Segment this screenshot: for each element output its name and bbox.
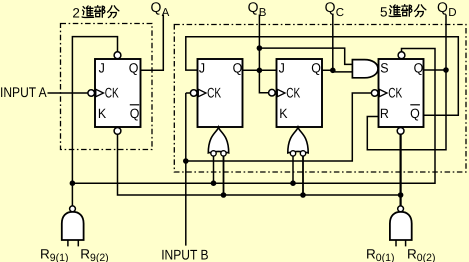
clear gate G2 under FF2 (negative-OR) <box>208 127 228 156</box>
wire INPUT B vertical to FF2 CK <box>186 93 190 246</box>
svg-text:9(2): 9(2) <box>90 252 109 262</box>
label 5進部分 (quinary section) <box>380 4 426 19</box>
R9 NAND input stubs <box>68 240 78 246</box>
wire QB net: label down, to FF3 CK <box>259 15 268 93</box>
svg-text:Q: Q <box>311 61 321 76</box>
wire R0 net: FF1 clear bubble down to R0 rail <box>118 134 401 195</box>
flip-flop FF3 <box>277 59 323 127</box>
svg-text:S: S <box>380 61 388 76</box>
wire Q-bar D feedback to FF2 J <box>186 37 459 116</box>
svg-text:CK: CK <box>105 85 119 101</box>
node R0(1) label <box>366 246 394 262</box>
svg-text:J: J <box>199 61 205 76</box>
svg-text:Q: Q <box>410 106 420 121</box>
junction R0 NAND output <box>398 192 404 198</box>
node R0(2) label <box>407 246 435 262</box>
svg-text:0(1): 0(1) <box>376 252 395 262</box>
junction QB to AND-gate branch <box>257 45 263 51</box>
svg-text:B: B <box>259 7 267 19</box>
svg-text:K: K <box>98 106 106 121</box>
svg-text:R: R <box>407 246 417 261</box>
svg-text:D: D <box>448 7 456 19</box>
wire QC net: FF3 Q out, label up, AND gate lower input <box>323 15 353 72</box>
wire R9 line: horizontal rail to FF4 preset bubble <box>72 49 435 184</box>
wire QD net: FF4 Q out, label up, down to FF4 R input <box>367 15 446 150</box>
junction QD at FF4 Q output <box>443 67 449 73</box>
node R9(2) label <box>80 246 108 262</box>
G2 input wire from R9 rail <box>213 156 215 183</box>
FF4 CK inversion bubble <box>371 90 378 97</box>
clear gate G3 under FF3 (negative-OR) <box>288 127 308 156</box>
node QA label <box>151 0 170 19</box>
NAND gate R9 (bottom left) <box>62 206 84 240</box>
junction R9 rail to G3 <box>290 180 296 186</box>
svg-text:5: 5 <box>380 4 388 19</box>
wire INPUT A to FF1 CK <box>48 92 88 94</box>
FF3 CK inversion bubble <box>269 89 276 96</box>
flip-flop FF1 (binary section) <box>95 59 141 127</box>
junction R9 NAND output <box>70 180 76 186</box>
dashed enclosure box1 (2-shin bubun / divide-by-2 section) <box>61 24 153 150</box>
NAND gate R0 (bottom right) <box>390 206 412 240</box>
wire QA net: FF1 Q output up to QA label <box>141 15 164 71</box>
junction R0 rail to G2 <box>221 192 227 198</box>
FF1 clear bubble (bottom) <box>114 127 121 134</box>
svg-text:A: A <box>162 7 170 19</box>
wire INPUT B to FF4 CK <box>186 93 371 161</box>
R0 NAND input stubs <box>396 240 406 246</box>
G3 input wire from R9 rail <box>292 156 294 183</box>
svg-text:INPUT A: INPUT A <box>0 84 47 100</box>
svg-text:Q: Q <box>151 0 162 15</box>
G2 input wire from R0 rail <box>223 156 225 195</box>
flip-flop FF2 <box>198 59 243 127</box>
FF4 clear bubble (bottom) <box>397 127 404 134</box>
FF4 preset bubble (top) <box>398 52 405 59</box>
svg-text:CK: CK <box>207 85 221 101</box>
junction R0 rail to G3 <box>300 192 306 198</box>
label 2進部分 (binary section) <box>72 5 119 20</box>
svg-text:Q: Q <box>129 61 139 76</box>
junction QB at FF2 Q output <box>257 68 263 74</box>
svg-text:CK: CK <box>388 85 402 101</box>
svg-text:J: J <box>99 61 105 76</box>
svg-text:Q: Q <box>130 106 140 121</box>
FF2 CK inversion bubble <box>190 90 197 97</box>
node R9(1) label <box>40 246 68 262</box>
node QC label <box>325 0 345 19</box>
svg-text:Q: Q <box>437 0 448 15</box>
svg-text:0(2): 0(2) <box>417 252 436 262</box>
svg-text:Q: Q <box>248 0 259 15</box>
svg-text:R: R <box>380 106 389 121</box>
svg-text:9(1): 9(1) <box>50 252 69 262</box>
svg-text:Q: Q <box>325 0 336 15</box>
svg-text:INPUT B: INPUT B <box>161 247 208 262</box>
svg-text:R: R <box>40 246 50 261</box>
junction QC at FF3 Q output <box>330 68 336 74</box>
wire R9 set net: NAND output up, branch to FF1 preset bubble <box>72 37 117 206</box>
wire FF2 Q to FF3 J <box>243 69 277 71</box>
dashed enclosure box2 (5-shin bubun / divide-by-5 section) <box>174 25 466 173</box>
wire QB branch to AND gate upper input <box>259 48 352 64</box>
junction INPUT B branch to FF4 CK <box>183 158 189 164</box>
svg-text:R: R <box>366 246 376 261</box>
node QD label <box>437 0 457 19</box>
svg-text:K: K <box>279 106 287 121</box>
svg-text:Q: Q <box>233 61 243 76</box>
node QB label <box>248 0 267 19</box>
svg-text:CK: CK <box>286 85 300 101</box>
wire R0 NAND output up to FF4 clear bubble <box>400 134 402 205</box>
AND gate U1 (QB.QC to FF4 S) <box>352 60 378 78</box>
svg-text:C: C <box>336 7 344 19</box>
junction R9 rail to G2 <box>211 180 217 186</box>
svg-text:R: R <box>80 246 90 261</box>
flip-flop FF4 <box>379 59 424 127</box>
FF1 CK inversion bubble <box>88 90 95 97</box>
svg-text:2: 2 <box>72 5 80 20</box>
FF1 preset bubble (top) <box>114 52 121 59</box>
svg-text:Q: Q <box>414 61 424 76</box>
svg-text:J: J <box>279 61 285 76</box>
G3 input wire from R0 rail <box>302 156 304 195</box>
